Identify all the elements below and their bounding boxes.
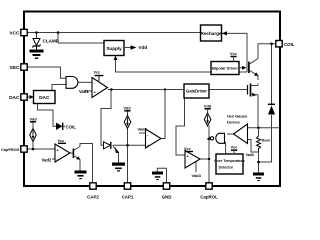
svg-text:Vdd: Vdd	[139, 45, 148, 50]
svg-text:COIL: COIL	[66, 124, 77, 129]
svg-text:CAP1: CAP1	[122, 195, 134, 200]
svg-text:Vad3: Vad3	[246, 153, 254, 157]
svg-text:VCC: VCC	[9, 31, 20, 37]
svg-text:CapROL: CapROL	[200, 195, 218, 200]
svg-text:DAC: DAC	[9, 95, 20, 101]
svg-text:Vdd: Vdd	[124, 106, 132, 110]
svg-text:COIL: COIL	[284, 42, 295, 47]
svg-text:Rsen: Rsen	[262, 139, 271, 143]
svg-text:Recharge: Recharge	[201, 31, 222, 36]
svg-text:CLAMP: CLAMP	[43, 39, 59, 44]
svg-text:Out Gauss: Out Gauss	[227, 114, 248, 119]
svg-text:Vcc: Vcc	[58, 139, 65, 143]
svg-text:Detector: Detector	[219, 166, 234, 170]
svg-text:SEC: SEC	[10, 65, 20, 71]
svg-text:CAP2: CAP2	[87, 195, 99, 200]
svg-text:Supply: Supply	[106, 46, 122, 51]
svg-text:Vad2: Vad2	[138, 127, 148, 132]
svg-text:Vcc: Vcc	[94, 71, 101, 75]
svg-text:GND: GND	[162, 195, 172, 200]
svg-text:Bipolar Driver: Bipolar Driver	[212, 66, 238, 71]
svg-text:Vcc: Vcc	[231, 146, 238, 150]
svg-text:Vad2: Vad2	[42, 158, 52, 163]
svg-text:Device: Device	[227, 120, 241, 125]
svg-text:Vad1: Vad1	[79, 89, 89, 94]
svg-text:CapPROG: CapPROG	[1, 148, 19, 152]
svg-text:Over Temperature: Over Temperature	[214, 159, 245, 163]
svg-text:DAC: DAC	[39, 95, 50, 101]
svg-text:Vcc: Vcc	[230, 52, 237, 56]
svg-text:Vdd: Vdd	[30, 117, 38, 121]
svg-text:GateDriver: GateDriver	[186, 89, 207, 94]
svg-text:Vad3: Vad3	[192, 173, 202, 178]
svg-text:Vcc: Vcc	[184, 147, 191, 151]
svg-text:Vdd: Vdd	[204, 104, 212, 108]
